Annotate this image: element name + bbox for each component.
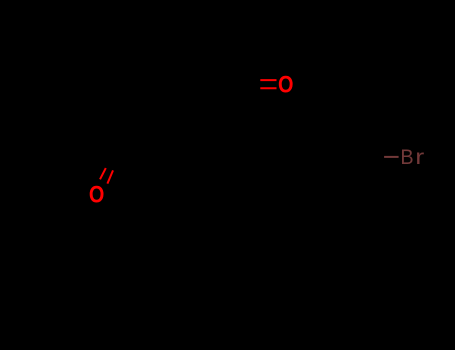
svg-text:B: B	[400, 145, 413, 169]
atom label Br : letter B	[400, 145, 413, 169]
svg-text:O: O	[89, 180, 104, 207]
atom label O (left)	[89, 180, 104, 207]
double bond C=O (left carbonyl)	[100, 168, 113, 184]
atom label Br : letter r	[415, 145, 424, 169]
svg-text:O: O	[278, 71, 293, 98]
bond C-Br	[384, 156, 399, 158]
double bond C=O (top right carbonyl)	[260, 80, 276, 88]
atom label O (top right)	[278, 71, 293, 98]
svg-text:r: r	[415, 145, 424, 169]
